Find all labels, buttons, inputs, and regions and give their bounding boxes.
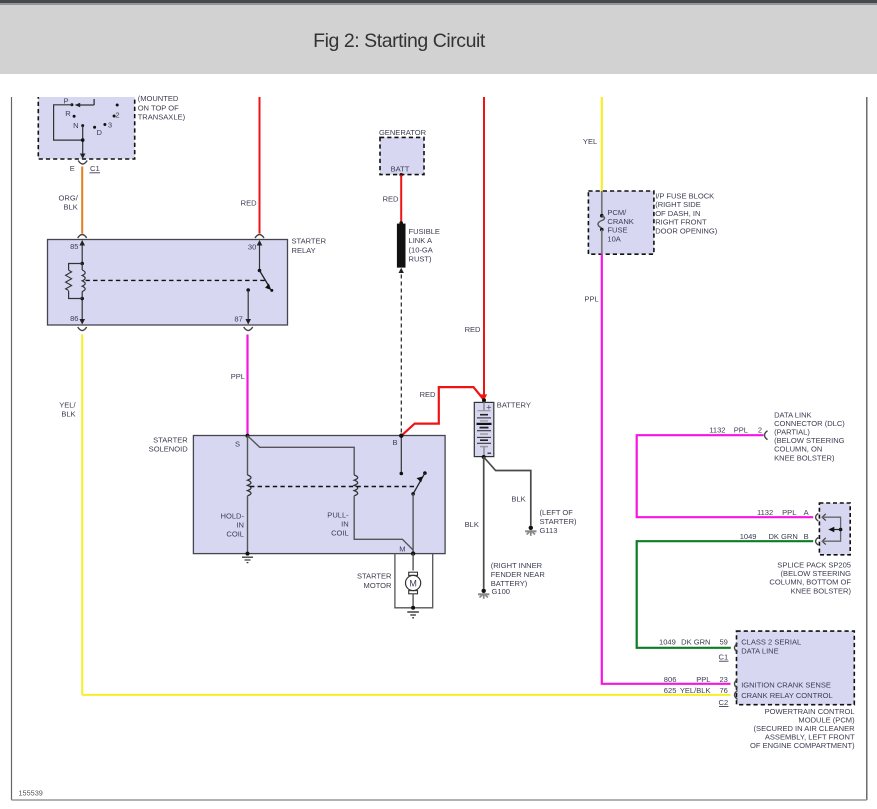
svg-text:M: M xyxy=(409,578,417,588)
svg-text:DATA LINE: DATA LINE xyxy=(741,646,778,655)
wire DK GRN 1049 from splice pack to PCM pin 59 xyxy=(637,532,814,648)
svg-text:C2: C2 xyxy=(719,698,729,707)
splice pack pin A xyxy=(816,513,841,529)
wire RED from top to starter relay pin 30 xyxy=(241,97,260,234)
solenoid switch blade xyxy=(411,471,426,553)
relay pin 85 connector arc xyxy=(78,235,87,239)
svg-text:(RIGHT SIDE: (RIGHT SIDE xyxy=(655,200,701,209)
svg-text:DOOR OPENING): DOOR OPENING) xyxy=(655,226,718,235)
svg-text:85: 85 xyxy=(70,242,78,251)
svg-text:LINK A: LINK A xyxy=(409,236,433,245)
solenoid terminal M node xyxy=(399,545,415,556)
solenoid hold-in coil branch xyxy=(221,436,251,554)
svg-text:M: M xyxy=(399,545,405,554)
solenoid actuation dashed line xyxy=(250,486,417,488)
relay pin 85 xyxy=(70,240,85,264)
switch contact arm xyxy=(75,99,94,107)
wire PPL from relay pin 87 to solenoid S xyxy=(231,335,248,436)
relay pin 30 connector arc xyxy=(255,235,264,239)
svg-text:BLK: BLK xyxy=(465,520,479,529)
svg-text:(BELOW STEERING: (BELOW STEERING xyxy=(781,569,852,578)
svg-text:DK GRN: DK GRN xyxy=(768,532,797,541)
svg-text:1132: 1132 xyxy=(709,426,725,435)
svg-text:IN: IN xyxy=(341,520,349,529)
wire BLK from battery - to G100 xyxy=(465,455,486,589)
svg-text:CRANK RELAY CONTROL: CRANK RELAY CONTROL xyxy=(741,691,833,700)
solenoid contact from B xyxy=(392,436,403,476)
svg-text:2: 2 xyxy=(758,426,762,435)
header bar xyxy=(0,0,877,74)
svg-text:BLK: BLK xyxy=(64,202,78,211)
white clip band above diagram area xyxy=(0,74,877,97)
svg-text:RED: RED xyxy=(465,325,481,334)
svg-text:PPL: PPL xyxy=(782,508,796,517)
wire YEL/BLK horizontal run to PCM pin 76 xyxy=(82,694,730,696)
svg-text:B: B xyxy=(392,438,397,447)
starter relay box xyxy=(48,237,327,326)
svg-text:BLK: BLK xyxy=(61,410,75,419)
svg-text:1049: 1049 xyxy=(740,532,757,541)
svg-text:KNEE BOLSTER): KNEE BOLSTER) xyxy=(791,586,852,595)
text (MOUNTED ON TOP OF TRANSAXLE) xyxy=(138,94,186,122)
svg-text:CRANK: CRANK xyxy=(607,217,633,226)
starter solenoid box xyxy=(149,435,445,553)
svg-text:D: D xyxy=(96,128,102,137)
svg-text:RED: RED xyxy=(383,195,399,204)
powertrain control module PCM box xyxy=(737,631,856,750)
PCM pin 76 CRANK RELAY CONTROL xyxy=(664,686,833,707)
svg-text:BATTERY): BATTERY) xyxy=(491,579,528,588)
splice pack pin B xyxy=(816,530,841,546)
position labels P R N D 2 3 1 and contact dots xyxy=(63,97,119,137)
svg-text:OF ENGINE COMPARTMENT): OF ENGINE COMPARTMENT) xyxy=(750,741,855,750)
relay pin 87 connector arc xyxy=(244,327,253,331)
wire YEL from top to fuse block xyxy=(583,97,602,191)
wire BLK from battery - to G113 xyxy=(484,457,531,526)
svg-text:806: 806 xyxy=(664,675,677,684)
svg-text:2: 2 xyxy=(115,110,119,119)
relay coil with parallel resistor xyxy=(66,262,86,301)
svg-text:FUSE: FUSE xyxy=(607,226,627,235)
svg-text:155539: 155539 xyxy=(19,788,43,797)
wire RED from generator BATT to fusible link xyxy=(383,175,402,223)
svg-text:S: S xyxy=(235,440,240,449)
svg-text:RED: RED xyxy=(420,390,436,399)
svg-text:86: 86 xyxy=(70,314,78,323)
svg-text:G100: G100 xyxy=(492,587,510,596)
svg-text:KNEE BOLSTER): KNEE BOLSTER) xyxy=(774,453,835,462)
splice pack SP205 box xyxy=(769,503,851,595)
svg-text:76: 76 xyxy=(719,686,727,695)
svg-text:IGNITION CRANK SENSE: IGNITION CRANK SENSE xyxy=(741,680,831,689)
battery BAT1 xyxy=(474,398,531,456)
relay pin 30 xyxy=(248,240,262,271)
svg-text:FENDER NEAR: FENDER NEAR xyxy=(491,570,546,579)
fuse PCM/CRANK FUSE 10A xyxy=(598,191,634,254)
relay pin 86 xyxy=(70,299,85,325)
svg-text:SPLICE PACK SP205: SPLICE PACK SP205 xyxy=(777,560,851,569)
svg-text:Fig 2: Starting Circuit: Fig 2: Starting Circuit xyxy=(313,30,486,52)
svg-text:RELAY: RELAY xyxy=(292,246,316,255)
svg-text:BATTERY: BATTERY xyxy=(497,401,531,410)
svg-text:TRANSAXLE): TRANSAXLE) xyxy=(138,113,186,122)
svg-text:G113: G113 xyxy=(540,526,558,535)
svg-text:R: R xyxy=(65,109,71,118)
wire PPL 1132 DLC to splice pack SP205 xyxy=(637,426,814,518)
svg-text:RUST): RUST) xyxy=(409,255,433,264)
svg-text:COIL: COIL xyxy=(331,529,349,538)
svg-text:10A: 10A xyxy=(607,235,621,244)
svg-text:GENERATOR: GENERATOR xyxy=(379,128,427,137)
wire RED battery feed from top xyxy=(465,97,488,400)
svg-text:3: 3 xyxy=(108,120,112,129)
starter motor M1 xyxy=(357,554,421,608)
svg-text:1132: 1132 xyxy=(757,508,773,517)
svg-text:(RIGHT INNER: (RIGHT INNER xyxy=(491,561,543,570)
splice bus arrow xyxy=(828,527,842,533)
svg-text:STARTER: STARTER xyxy=(153,435,188,444)
svg-text:C1: C1 xyxy=(719,653,729,662)
internal wire from P and N contacts to pin E xyxy=(54,105,86,159)
svg-text:(10-GA: (10-GA xyxy=(409,245,434,254)
svg-text:BATT: BATT xyxy=(391,164,410,173)
node at solenoid B terminal xyxy=(399,434,403,438)
svg-text:625: 625 xyxy=(664,686,677,695)
dashed wire from fusible link to solenoid B xyxy=(400,275,402,434)
solenoid internal ground xyxy=(242,552,253,563)
svg-text:P: P xyxy=(63,97,68,106)
ground G113 xyxy=(525,508,577,536)
svg-text:STARTER: STARTER xyxy=(292,237,327,246)
wire ORG/BLK from C1 to starter relay pin 85 xyxy=(59,167,83,234)
svg-text:30: 30 xyxy=(248,243,256,252)
svg-text:(MOUNTED: (MOUNTED xyxy=(138,94,179,103)
ground G100 xyxy=(478,561,545,599)
svg-text:PPL: PPL xyxy=(734,426,748,435)
svg-text:23: 23 xyxy=(719,675,727,684)
relay actuation dashed line xyxy=(86,279,267,281)
fusible link A (10-GA RUST) xyxy=(397,221,440,273)
svg-text:PPL: PPL xyxy=(696,675,710,684)
svg-text:ON TOP OF: ON TOP OF xyxy=(138,103,179,112)
starter motor frame loop xyxy=(395,554,433,608)
svg-text:YEL/: YEL/ xyxy=(59,401,76,410)
svg-text:1049: 1049 xyxy=(659,638,676,647)
svg-text:YEL: YEL xyxy=(583,137,597,146)
svg-text:SOLENOID: SOLENOID xyxy=(149,444,189,453)
wire PPL from fuse to PCM pin 23 xyxy=(584,254,730,684)
svg-text:RIGHT FRONT: RIGHT FRONT xyxy=(655,218,707,227)
svg-text:MOTOR: MOTOR xyxy=(364,581,393,590)
connector C1 pin E arc xyxy=(70,161,100,174)
svg-text:FUSIBLE: FUSIBLE xyxy=(409,227,440,236)
generator box xyxy=(379,128,427,177)
svg-text:BLK: BLK xyxy=(511,495,525,504)
svg-text:HOLD-: HOLD- xyxy=(221,511,245,520)
I/P fuse block box xyxy=(588,191,717,254)
svg-text:OF DASH, IN: OF DASH, IN xyxy=(655,209,700,218)
PCM pin 23 IGNITION CRANK SENSE xyxy=(664,675,831,690)
wire RED from battery + to solenoid B xyxy=(402,387,484,435)
svg-text:PCM/: PCM/ xyxy=(607,208,627,217)
relay pin 86 connector arc xyxy=(78,327,87,331)
svg-text:STARTER): STARTER) xyxy=(540,517,578,526)
svg-text:IN: IN xyxy=(236,520,244,529)
svg-text:CLASS 2 SERIAL: CLASS 2 SERIAL xyxy=(741,638,801,647)
svg-text:59: 59 xyxy=(719,638,727,647)
svg-text:E: E xyxy=(70,164,75,173)
svg-text:RED: RED xyxy=(241,199,257,208)
data link connector DLC pin 2 arc xyxy=(765,410,846,462)
wire YEL/BLK from relay pin 86 down left side xyxy=(59,335,82,695)
svg-text:87: 87 xyxy=(234,315,242,324)
solenoid terminal S node xyxy=(235,434,250,449)
svg-text:STARTER: STARTER xyxy=(357,572,392,581)
svg-text:B: B xyxy=(804,532,809,541)
svg-text:C1: C1 xyxy=(90,164,100,173)
solenoid pull-in coil branch xyxy=(248,436,414,550)
PCM pin 59 CLASS 2 SERIAL DATA LINE xyxy=(659,638,801,662)
relay pin 87 xyxy=(234,288,251,324)
svg-text:DK GRN: DK GRN xyxy=(681,638,710,647)
svg-text:PPL: PPL xyxy=(231,372,245,381)
svg-text:I/P FUSE BLOCK: I/P FUSE BLOCK xyxy=(655,192,714,201)
svg-text:PULL-: PULL- xyxy=(327,511,349,520)
svg-text:(LEFT OF: (LEFT OF xyxy=(540,508,574,517)
park/neutral position switch (ignition switch) box xyxy=(38,88,134,159)
svg-text:YEL/BLK: YEL/BLK xyxy=(680,686,711,695)
svg-text:N: N xyxy=(73,121,78,130)
relay switch blade xyxy=(258,269,274,292)
svg-text:PPL: PPL xyxy=(584,294,598,303)
starter motor ground xyxy=(407,606,419,618)
svg-text:COIL: COIL xyxy=(226,529,244,538)
svg-text:COLUMN, BOTTOM OF: COLUMN, BOTTOM OF xyxy=(769,578,851,587)
